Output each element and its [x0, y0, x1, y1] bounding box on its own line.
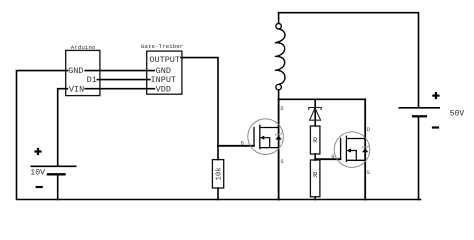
svg-text:50V: 50V [450, 109, 465, 118]
svg-text:G: G [241, 140, 244, 146]
svg-text:R: R [313, 138, 318, 146]
svg-text:R: R [313, 172, 318, 180]
svg-text:D1: D1 [87, 75, 97, 85]
svg-text:Arduino: Arduino [71, 44, 96, 51]
svg-text:S: S [367, 170, 370, 176]
svg-text:10k: 10k [216, 167, 224, 181]
svg-text:10V: 10V [30, 168, 45, 177]
svg-text:S: S [281, 159, 284, 165]
svg-text:VIN: VIN [69, 84, 84, 94]
svg-text:Gate-Treiber: Gate-Treiber [141, 43, 183, 50]
svg-text:VDD: VDD [156, 84, 171, 94]
svg-text:D: D [367, 127, 370, 133]
svg-text:G: G [331, 154, 334, 160]
svg-text:GND: GND [68, 66, 83, 76]
svg-text:D: D [281, 106, 284, 112]
svg-text:OUTPUT: OUTPUT [149, 55, 180, 65]
